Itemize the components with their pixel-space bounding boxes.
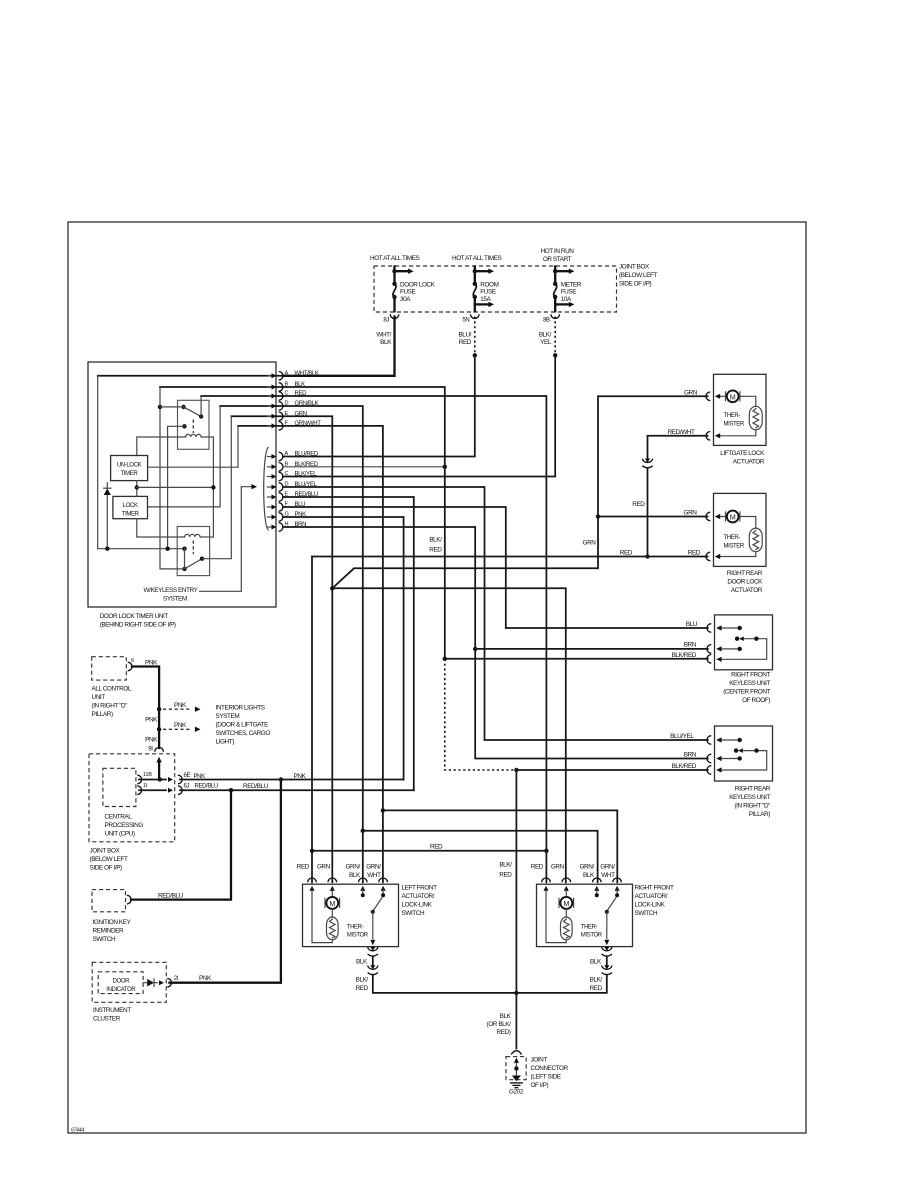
svg-text:LOCK-LINK: LOCK-LINK xyxy=(635,902,666,909)
connector 9I xyxy=(155,748,164,752)
right front actuator RED pin connector xyxy=(542,878,551,882)
wire BLK/RED ground rail between actuators xyxy=(373,975,607,993)
svg-text:BLU: BLU xyxy=(686,621,698,628)
svg-text:BLU/RED: BLU/RED xyxy=(295,452,319,458)
right rear keyless internal BLU/YEL lead xyxy=(716,737,721,742)
right front lock-link switch xyxy=(596,889,598,893)
junction GRN splice xyxy=(330,586,334,590)
relay 1 mechanical link (dashed) xyxy=(192,420,194,434)
fuse ROOM bottom wire xyxy=(474,297,476,311)
timer pin E (RED/BLU) connector xyxy=(268,496,273,498)
right front keyless internal BRN lead xyxy=(716,646,721,651)
svg-text:ACTUATOR: ACTUATOR xyxy=(733,459,765,466)
wire BLK/YEL down to timer pin C lower xyxy=(283,355,555,476)
right rear actuator motor M xyxy=(715,514,720,519)
right front keyless unit box xyxy=(715,615,773,670)
timer pin H (BRN) connector xyxy=(268,526,273,528)
svg-text:BLK: BLK xyxy=(356,958,368,965)
svg-text:2I: 2I xyxy=(174,976,179,982)
svg-text:BLK/: BLK/ xyxy=(590,976,603,983)
right rear actuator RED pin connector xyxy=(706,552,710,561)
svg-text:FUSE: FUSE xyxy=(561,289,577,296)
svg-text:DOOR LOCK TIMER UNIT: DOOR LOCK TIMER UNIT xyxy=(100,613,169,620)
svg-text:CENTRAL: CENTRAL xyxy=(105,813,133,820)
wire PNK from door indicator riser xyxy=(170,780,281,983)
svg-text:8B: 8B xyxy=(543,317,550,323)
wire GRN to right rear door lock actuator xyxy=(598,516,708,518)
svg-text:UNIT (CPU): UNIT (CPU) xyxy=(105,830,135,837)
timer pin C (RED) connector xyxy=(268,395,273,397)
svg-text:BLK: BLK xyxy=(500,1013,512,1020)
svg-text:(OR BLK/: (OR BLK/ xyxy=(487,1021,512,1028)
relay 1 lower contact xyxy=(182,424,186,428)
left front lock-link switch xyxy=(362,889,364,893)
svg-text:GRN/: GRN/ xyxy=(366,864,381,871)
svg-text:WHT/BLK: WHT/BLK xyxy=(295,371,319,377)
connector 5N xyxy=(471,314,480,318)
svg-text:WHT/: WHT/ xyxy=(376,332,391,339)
wire RED rail across to right rear actuator xyxy=(312,556,708,558)
junction PNK at CPU output xyxy=(158,777,162,781)
ignition key reminder switch connector xyxy=(127,895,131,904)
left front actuator motor M xyxy=(331,890,333,897)
svg-text:BLK/: BLK/ xyxy=(429,537,442,544)
timer pin F (GRN/WHT) connector xyxy=(268,425,273,427)
svg-text:ACTUATOR/: ACTUATOR/ xyxy=(402,893,435,900)
svg-text:GRN/: GRN/ xyxy=(600,864,615,871)
svg-text:BRN: BRN xyxy=(684,642,697,649)
liftgate actuator motor M xyxy=(715,394,720,399)
liftgate lock actuator box xyxy=(714,374,767,445)
wire RED/WHT from liftgate actuator xyxy=(648,436,708,459)
right front actuator GRN/BLK pin connector xyxy=(593,878,602,882)
junction GRN/WHT branch xyxy=(381,808,385,812)
timer internal wire pin A net xyxy=(98,375,283,377)
left front actuator RED internal wire xyxy=(312,890,332,942)
junction RED crossover left xyxy=(310,849,314,853)
timer internal wire pin E net xyxy=(231,415,283,417)
right front keyless BLU pin connector xyxy=(707,624,711,633)
svg-text:M: M xyxy=(564,901,570,908)
svg-text:6: 6 xyxy=(131,658,134,664)
left front actuator second inline connector xyxy=(368,966,378,970)
svg-text:HOT IN RUN: HOT IN RUN xyxy=(541,248,575,255)
junction BRN branch to right front keyless xyxy=(473,647,477,651)
svg-text:BLK: BLK xyxy=(349,872,361,879)
joint box (fuse block) dashed outline xyxy=(374,266,617,312)
right front actuator box xyxy=(537,884,633,946)
svg-text:LIFTGATE LOCK: LIFTGATE LOCK xyxy=(720,450,765,457)
relay 1 switch arm xyxy=(184,407,202,417)
svg-text:ROOM: ROOM xyxy=(480,281,498,288)
right rear door lock actuator box xyxy=(714,493,767,566)
svg-text:WHT: WHT xyxy=(601,872,615,879)
fuse DOOR LOCK feed wire xyxy=(393,267,395,284)
left front actuator GRN/BLK pin connector xyxy=(359,878,368,882)
svg-text:RED/BLU: RED/BLU xyxy=(243,783,269,790)
svg-text:LEFT FRONT: LEFT FRONT xyxy=(402,885,438,892)
svg-text:11B: 11B xyxy=(143,772,152,778)
relay 2 switch arm xyxy=(185,559,203,569)
fuse METER feed wire xyxy=(554,267,556,284)
svg-text:PILLAR): PILLAR) xyxy=(749,811,771,818)
timer pin D (GRN/BLK) connector xyxy=(268,405,273,407)
svg-text:(IN RIGHT "D": (IN RIGHT "D" xyxy=(92,703,128,710)
timer internal wire pin C net xyxy=(201,395,283,397)
joint connector entry arc xyxy=(511,1051,521,1055)
wire GRN/BLK from timer pin D to left front actuator xyxy=(283,406,363,882)
svg-text:BLK/: BLK/ xyxy=(499,862,512,869)
svg-text:BLU/YEL: BLU/YEL xyxy=(670,733,694,740)
instrument cluster dashed box xyxy=(92,962,166,1002)
joint connector internal wire xyxy=(514,1058,519,1063)
svg-text:A: A xyxy=(285,451,289,457)
fuse element DOOR LOCK xyxy=(392,282,396,286)
svg-text:ALL CONTROL: ALL CONTROL xyxy=(92,686,132,693)
svg-text:PNK: PNK xyxy=(174,722,187,729)
svg-text:KEYLESS UNIT: KEYLESS UNIT xyxy=(729,794,770,801)
svg-text:ACTUATOR: ACTUATOR xyxy=(731,587,763,594)
wire BLK from timer pin B to BLK/RED junction xyxy=(283,387,445,467)
junction PNK to instrument cluster xyxy=(279,777,283,781)
wire relay1 coil to un-lock timer xyxy=(137,437,186,456)
timer pin G (PNK) connector xyxy=(268,516,273,518)
svg-text:THER-: THER- xyxy=(724,535,741,541)
junction BLK/RED at x516 xyxy=(514,768,518,772)
left front actuator lower inline connector BLK xyxy=(368,947,378,951)
svg-text:DOOR: DOOR xyxy=(113,978,131,984)
svg-text:SYSTEM: SYSTEM xyxy=(216,713,240,720)
wire RED from timer pin C to right front actuator xyxy=(283,396,546,882)
svg-text:(LEFT SIDE: (LEFT SIDE xyxy=(531,1073,561,1080)
svg-text:8J: 8J xyxy=(383,317,389,323)
svg-text:RIGHT REAR: RIGHT REAR xyxy=(727,570,763,577)
fuse element ROOM xyxy=(473,282,477,286)
svg-text:MISTOR: MISTOR xyxy=(581,932,603,938)
right front actuator lower inline connector BLK xyxy=(602,947,612,951)
svg-text:BLU/: BLU/ xyxy=(458,332,471,339)
svg-text:W/KEYLESS ENTRY: W/KEYLESS ENTRY xyxy=(144,587,199,594)
wire lock timer to relay2 coil xyxy=(137,519,185,537)
svg-text:67444: 67444 xyxy=(71,1128,84,1134)
fuse ROOM top branch arrow xyxy=(475,270,489,272)
svg-text:WHT: WHT xyxy=(367,872,381,879)
right rear keyless internal switch row xyxy=(734,748,738,752)
right front keyless BLK/RED pin connector xyxy=(707,655,711,664)
svg-text:(BELOW LEFT: (BELOW LEFT xyxy=(619,272,658,279)
svg-text:C: C xyxy=(285,471,289,477)
connector 8B xyxy=(551,314,560,318)
svg-text:RED: RED xyxy=(499,872,512,879)
svg-text:HOT AT ALL TIMES: HOT AT ALL TIMES xyxy=(370,255,420,262)
central processing unit dashed box xyxy=(103,768,136,806)
svg-text:HOT AT ALL TIMES: HOT AT ALL TIMES xyxy=(452,255,502,262)
relay 1 (unlock relay) outline xyxy=(178,400,210,449)
wire BLK/RED to right front keyless unit xyxy=(445,658,708,660)
ignition key reminder switch dashed box xyxy=(92,890,126,912)
svg-text:INDICATOR: INDICATOR xyxy=(106,987,136,993)
wire BLK/RED trunk down xyxy=(444,467,446,659)
wire CPU 1I to connector 6J xyxy=(139,789,166,791)
svg-text:METER: METER xyxy=(561,281,582,288)
junction GRN/BLK branch xyxy=(361,829,365,833)
wire BLK/RED to right rear keyless unit xyxy=(516,769,707,771)
relay 2 (lock relay) outline xyxy=(177,527,209,576)
right rear actuator GRN pin connector xyxy=(706,512,710,521)
svg-text:(IN RIGHT "D": (IN RIGHT "D" xyxy=(734,803,770,810)
svg-text:THER-: THER- xyxy=(724,413,741,419)
wire PNK row 6E to pin G riser xyxy=(180,779,404,781)
right front actuator motor M xyxy=(565,890,567,897)
timer pin E (GRN) connector xyxy=(268,415,273,417)
svg-text:CLUSTER: CLUSTER xyxy=(93,1016,121,1023)
fuse METER bottom wire xyxy=(554,297,556,311)
junction PNK interior lights 1 xyxy=(157,707,161,711)
CPU pin 1I connector xyxy=(137,786,141,795)
liftgate actuator thermistor xyxy=(740,396,756,406)
svg-text:30A: 30A xyxy=(400,296,411,303)
svg-text:OF ROOF): OF ROOF) xyxy=(742,697,770,704)
wire BLK/YEL from fuse 8B (dashed segment) xyxy=(554,317,556,353)
timer pin C (BLK/YEL) connector xyxy=(268,476,273,478)
splice on BLK/YEL wire xyxy=(553,353,557,357)
svg-text:6J: 6J xyxy=(184,784,190,790)
timer pin B (BLK) connector xyxy=(268,386,273,388)
svg-text:FUSE: FUSE xyxy=(480,289,496,296)
svg-text:MISTOR: MISTOR xyxy=(347,932,369,938)
fuse element METER xyxy=(553,282,557,286)
svg-text:MISTER: MISTER xyxy=(724,421,745,427)
right front actuator thermistor xyxy=(565,909,567,917)
svg-text:G202: G202 xyxy=(509,1089,524,1096)
wire relay2 coil right end xyxy=(200,536,213,538)
svg-text:6E: 6E xyxy=(184,773,191,779)
svg-text:SWITCH: SWITCH xyxy=(402,910,425,917)
svg-text:THER-: THER- xyxy=(347,924,364,930)
wire un-lock timer to lock timer xyxy=(136,481,138,497)
svg-text:GRN: GRN xyxy=(317,864,331,871)
svg-text:RED/BLU: RED/BLU xyxy=(195,784,218,790)
relay 2 common contact xyxy=(182,567,186,571)
svg-text:10A: 10A xyxy=(561,296,572,303)
svg-text:UN-LOCK: UN-LOCK xyxy=(117,462,142,468)
svg-text:DOOR LOCK: DOOR LOCK xyxy=(727,578,763,585)
svg-text:SWITCHES, CARGO: SWITCHES, CARGO xyxy=(216,730,271,737)
junction BLK and BLK/RED xyxy=(443,465,447,469)
svg-text:RIGHT FRONT: RIGHT FRONT xyxy=(731,672,770,679)
svg-text:OF I/P): OF I/P) xyxy=(531,1082,549,1089)
svg-text:GRN: GRN xyxy=(583,540,597,547)
svg-text:(BEHIND RIGHT SIDE OF I/P): (BEHIND RIGHT SIDE OF I/P) xyxy=(100,621,176,628)
svg-text:(DOOR & LIFTGATE: (DOOR & LIFTGATE xyxy=(216,722,269,729)
wire RED/BLU from timer pin E lower to CPU row xyxy=(283,497,414,790)
liftgate actuator RED/WHT pin connector xyxy=(706,432,710,441)
svg-text:JOINT: JOINT xyxy=(531,1056,548,1063)
right rear keyless BLK/RED pin connector xyxy=(707,766,711,775)
all control unit dashed box xyxy=(92,657,127,680)
timer internal wire pin F net xyxy=(238,425,283,427)
instrument cluster connector 2I xyxy=(167,978,171,987)
svg-text:JOINT BOX: JOINT BOX xyxy=(90,848,121,855)
svg-text:INTERIOR LIGHTS: INTERIOR LIGHTS xyxy=(216,704,265,711)
svg-text:PNK: PNK xyxy=(145,737,158,744)
wire BLU from timer pin F lower to right front keyless xyxy=(283,507,708,628)
fuse METER top branch arrow xyxy=(555,270,569,272)
junction RED crossover right xyxy=(544,849,548,853)
svg-text:BLK: BLK xyxy=(380,339,392,346)
wire RED crossover between front actuators xyxy=(312,850,546,852)
liftgate actuator GRN pin connector xyxy=(706,392,710,401)
wire BLK/RED from timer pin B lower xyxy=(283,466,445,468)
relay 2 coil xyxy=(185,534,201,537)
svg-text:DOOR LOCK: DOOR LOCK xyxy=(400,281,436,288)
dashed arrow to interior lights 2 xyxy=(163,728,192,730)
wire GRN branch to right front actuator xyxy=(332,588,566,882)
wire BLU/RED from fuse 5N (dashed segment) xyxy=(474,317,476,353)
svg-text:(CENTER FRONT: (CENTER FRONT xyxy=(723,689,770,696)
svg-text:GRN: GRN xyxy=(684,390,698,397)
svg-text:SIDE OF I/P): SIDE OF I/P) xyxy=(619,281,652,288)
fuse METER lower branch arrow xyxy=(555,303,569,305)
svg-text:SWITCH: SWITCH xyxy=(93,936,116,943)
svg-text:RED: RED xyxy=(356,985,369,992)
wire PNK into joint box with up arrow xyxy=(156,757,161,763)
wire GRN from timer pin E to left front actuator xyxy=(283,416,332,882)
ground G202 xyxy=(512,1076,521,1082)
wire RED/BLU ignition key switch riser xyxy=(131,790,231,899)
right front actuator GRN pin connector xyxy=(562,878,571,882)
wire WHT/BLK from fuse 8J to timer pin A xyxy=(283,317,395,376)
svg-text:M: M xyxy=(730,394,736,401)
svg-text:YEL: YEL xyxy=(540,339,552,346)
fuse ROOM lower branch arrow xyxy=(475,303,489,305)
svg-text:PILLAR): PILLAR) xyxy=(92,711,114,718)
dashed arrow to interior lights 1 xyxy=(163,708,192,710)
svg-text:RED: RED xyxy=(297,864,310,871)
un-lock timer box xyxy=(111,456,148,481)
svg-text:TIMER: TIMER xyxy=(122,511,140,517)
timer pin A (BLU/RED) connector xyxy=(268,456,273,458)
svg-text:THER-: THER- xyxy=(581,924,598,930)
svg-text:JOINT BOX: JOINT BOX xyxy=(619,264,650,271)
svg-text:(BELOW LEFT: (BELOW LEFT xyxy=(90,856,129,863)
wire PNK from timer pin G lower xyxy=(283,517,404,780)
svg-text:RED: RED xyxy=(590,985,603,992)
svg-text:REMINDER: REMINDER xyxy=(93,928,125,935)
inline connector on RED/WHT-RED wire xyxy=(642,459,652,463)
svg-text:9I: 9I xyxy=(148,747,153,753)
svg-text:5N: 5N xyxy=(462,317,469,323)
door indicator dashed box xyxy=(98,972,143,994)
timer pin F (BLU) connector xyxy=(268,506,273,508)
timer internal wire pin D net xyxy=(220,405,283,407)
diagram border frame xyxy=(68,222,806,1133)
svg-text:PNK: PNK xyxy=(145,659,158,666)
right front keyless internal switch row xyxy=(735,637,739,641)
junction ground rail to G202 drop xyxy=(514,991,518,995)
junction RED/BLU to ignition key switch xyxy=(229,788,233,792)
wire PNK from all control unit xyxy=(132,667,159,749)
connector 6E xyxy=(178,775,182,784)
svg-text:RED: RED xyxy=(632,501,645,508)
right rear keyless internal BRN lead xyxy=(716,756,721,761)
timer internal wire pin B net xyxy=(160,386,283,388)
svg-text:RED/WHT: RED/WHT xyxy=(668,429,695,436)
door lock timer unit box xyxy=(88,362,276,607)
lock timer box xyxy=(113,496,148,518)
svg-text:MISTER: MISTER xyxy=(724,543,745,549)
right front actuator RED internal wire xyxy=(546,890,566,942)
svg-text:BLK/RED: BLK/RED xyxy=(672,763,697,770)
wire GRN/WHT branch to right front actuator xyxy=(383,810,617,882)
joint connector dashed box xyxy=(506,1057,526,1080)
wire BRN from timer pin H lower xyxy=(283,527,708,759)
svg-text:OR START: OR START xyxy=(543,256,572,263)
svg-text:TIMER: TIMER xyxy=(121,471,139,477)
svg-text:RIGHT REAR: RIGHT REAR xyxy=(735,786,771,793)
svg-text:15A: 15A xyxy=(480,296,491,303)
connector 6J xyxy=(178,786,182,795)
svg-text:RED/BLU: RED/BLU xyxy=(158,892,184,899)
svg-text:BLK/YEL: BLK/YEL xyxy=(295,472,318,478)
junction GRN to right rear actuator xyxy=(596,514,600,518)
svg-text:PROCESSING: PROCESSING xyxy=(105,822,144,829)
diode D1 in timer unit xyxy=(106,495,108,549)
wire GRN/WHT from timer pin F to left front actuator xyxy=(283,426,383,882)
svg-text:RED: RED xyxy=(688,550,701,557)
wire BLU/RED down to timer pin A lower xyxy=(283,355,475,456)
splice on BLU/RED wire xyxy=(473,353,477,357)
right front actuator GRN/WHT pin connector xyxy=(613,878,622,882)
svg-text:BLK: BLK xyxy=(583,872,595,879)
right rear keyless unit box xyxy=(715,726,773,781)
junction PNK interior lights 2 xyxy=(157,727,161,731)
door indicator LED diode xyxy=(143,982,147,984)
svg-text:UNIT: UNIT xyxy=(92,694,106,701)
left front actuator RED pin connector xyxy=(308,878,317,882)
svg-text:CONNECTOR: CONNECTOR xyxy=(531,1065,569,1072)
svg-text:PNK: PNK xyxy=(194,774,206,780)
svg-text:GRN/: GRN/ xyxy=(346,864,361,871)
svg-text:SYSTEM: SYSTEM xyxy=(163,595,187,602)
CPU pin 11B connector xyxy=(137,775,141,784)
joint box (CPU) dashed outline xyxy=(89,754,175,842)
right front actuator second inline connector xyxy=(602,966,612,970)
svg-text:PNK: PNK xyxy=(145,717,158,724)
left front actuator GRN pin connector xyxy=(328,878,337,882)
svg-text:GRN: GRN xyxy=(684,510,698,517)
timer pin A (WHT/BLK) connector xyxy=(268,375,273,377)
svg-text:GRN/: GRN/ xyxy=(580,864,595,871)
relay 1 common contact from pin B net xyxy=(181,405,185,409)
wire BRN to right front keyless unit xyxy=(475,648,708,650)
svg-text:RED): RED) xyxy=(497,1029,511,1036)
left front actuator thermistor xyxy=(331,909,333,917)
all control unit pin 6 connector xyxy=(128,662,132,671)
junction RED rail and liftgate RED branch xyxy=(645,554,649,558)
svg-text:RED: RED xyxy=(620,550,633,557)
wire BLU/YEL from timer pin D lower to right rear keyless xyxy=(283,487,708,740)
svg-text:RED: RED xyxy=(531,864,544,871)
svg-text:PNK: PNK xyxy=(174,702,187,709)
svg-text:PNK: PNK xyxy=(199,975,212,982)
wire relay1 coil right end to common coil node xyxy=(201,437,213,537)
relay 1 coil xyxy=(186,434,202,437)
fuse DOOR LOCK top branch arrow xyxy=(395,270,409,272)
brace for keyless connector group xyxy=(264,448,269,530)
right rear actuator thermistor xyxy=(740,517,756,529)
wire RED/BLU row 6J to pin E riser xyxy=(180,789,414,791)
